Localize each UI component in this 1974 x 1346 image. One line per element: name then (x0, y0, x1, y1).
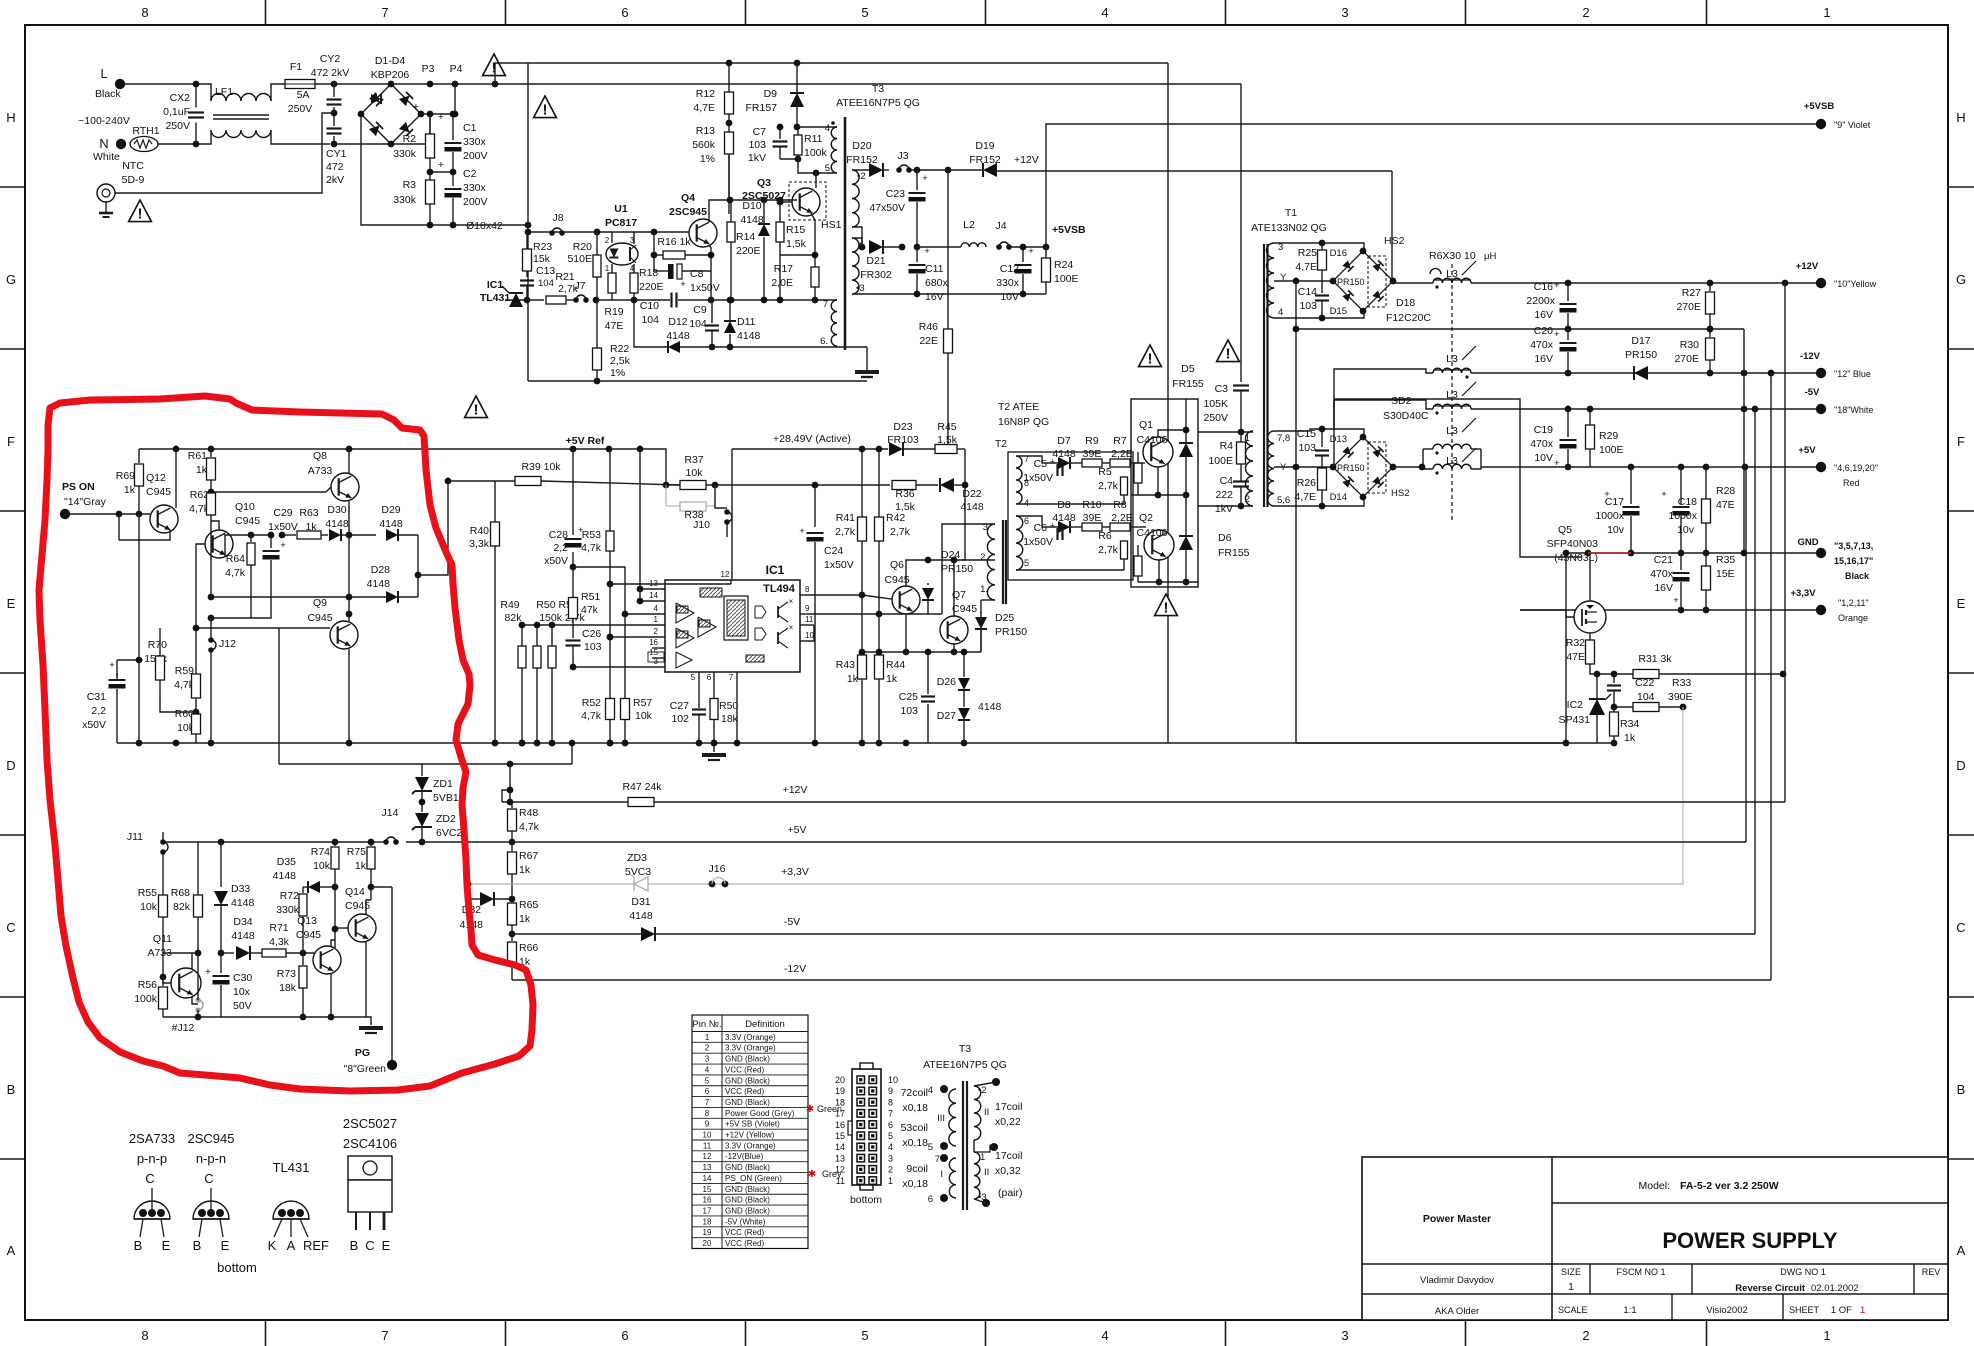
svg-text:D18: D18 (1396, 297, 1415, 309)
warning triangle near T1 (1217, 340, 1240, 362)
svg-text:Red: Red (1843, 478, 1860, 488)
svg-text:+3,3V: +3,3V (1790, 588, 1816, 599)
svg-text:R73: R73 (277, 968, 296, 980)
svg-text:C9: C9 (693, 304, 707, 316)
wire CY midpoint to earth (115, 113, 334, 193)
wire Q9 base row (196, 627, 330, 629)
svg-text:330k: 330k (393, 194, 417, 206)
svg-text:+: + (680, 279, 686, 290)
svg-text:D14: D14 (1330, 492, 1347, 503)
wire D19 +12V link line (997, 170, 1392, 172)
svg-text:B: B (7, 1082, 16, 1097)
svg-text:U1: U1 (614, 203, 628, 215)
svg-text:+28,49V (Active): +28,49V (Active) (773, 433, 851, 445)
svg-text:PS_ON (Green): PS_ON (Green) (725, 1174, 782, 1183)
svg-text:16: 16 (649, 638, 658, 647)
svg-text:+: + (109, 660, 115, 671)
svg-text:R9: R9 (1085, 435, 1099, 447)
svg-text:ZD1: ZD1 (433, 778, 453, 790)
svg-text:J16: J16 (709, 863, 726, 875)
svg-text:R35: R35 (1716, 554, 1735, 566)
svg-text:C1: C1 (463, 122, 477, 134)
svg-text:C30: C30 (233, 972, 252, 984)
svg-text:2,7k: 2,7k (890, 526, 911, 538)
svg-text:SHEET: SHEET (1789, 1305, 1820, 1315)
svg-text:R18: R18 (639, 267, 658, 279)
wire primary return bus (453, 224, 528, 226)
svg-text:4,7k: 4,7k (225, 567, 246, 579)
wire Q4 emitter column (709, 245, 711, 300)
transistor Q2 C4106 (1144, 530, 1174, 560)
svg-text:x50V: x50V (544, 555, 568, 567)
svg-text:7: 7 (381, 5, 388, 20)
warning triangle (483, 54, 506, 76)
wire Q8 emitter down to Q9 (348, 501, 350, 614)
T1 core (1263, 244, 1265, 507)
svg-text:Model:: Model: (1638, 1180, 1670, 1192)
wire Q5 source to R32 (1589, 633, 1591, 640)
svg-text:D8: D8 (1057, 499, 1071, 511)
svg-text:White: White (93, 151, 120, 163)
svg-text:D23: D23 (893, 421, 912, 433)
wire Q10 base (196, 544, 205, 674)
wire +3,3V rail grey (470, 883, 1683, 885)
wire pin10 (808, 625, 814, 641)
wire +5VRef to pins 13 14 (639, 449, 641, 601)
svg-text:4148: 4148 (629, 910, 653, 922)
svg-text:82k: 82k (505, 612, 523, 624)
-12V output terminal (1816, 368, 1826, 378)
svg-text:17: 17 (835, 1109, 845, 1119)
svg-text:C26: C26 (582, 628, 601, 640)
svg-text:Q4: Q4 (681, 192, 695, 204)
svg-text:3: 3 (1341, 5, 1348, 20)
svg-text:18: 18 (703, 1217, 712, 1226)
resistor R11 100k (794, 135, 802, 155)
diode D9 FR157 (794, 60, 801, 67)
svg-text:16V: 16V (1534, 353, 1553, 365)
svg-text:T1: T1 (1285, 207, 1297, 219)
svg-text:C22: C22 (1635, 677, 1654, 689)
svg-text:•2: •2 (978, 1085, 987, 1096)
warning triangle near D5 (1139, 345, 1162, 367)
svg-text:82k: 82k (173, 901, 191, 913)
svg-text:R32: R32 (1566, 637, 1585, 649)
svg-text:H: H (1956, 110, 1965, 125)
svg-text:C945: C945 (296, 929, 321, 941)
svg-text:+5V: +5V (1798, 445, 1816, 456)
T1 primary winding pins 1-2 (1246, 431, 1253, 506)
svg-text:L3: L3 (1446, 455, 1458, 467)
svg-text:2,0E: 2,0E (771, 277, 793, 289)
svg-text:+: + (922, 173, 928, 184)
svg-text:9: 9 (888, 1086, 893, 1096)
svg-text:SD2: SD2 (1391, 395, 1412, 407)
resistor R18 220E (630, 273, 638, 293)
svg-text:4,3k: 4,3k (269, 936, 290, 948)
svg-text:FR152: FR152 (969, 154, 1001, 166)
svg-text:3.3V (Orange): 3.3V (Orange) (725, 1033, 776, 1042)
svg-text:R23: R23 (533, 241, 552, 253)
wire half bridge mid to T1 pin1 (1198, 431, 1253, 433)
wire Q13 emitter (330, 974, 332, 1017)
svg-text:R41: R41 (836, 512, 855, 524)
T3 detail winding II link (973, 1140, 975, 1152)
svg-text:PR150: PR150 (995, 626, 1027, 638)
svg-text:VCC (Red): VCC (Red) (725, 1087, 764, 1096)
svg-text:Q14: Q14 (345, 886, 365, 898)
svg-text:R6: R6 (1098, 530, 1112, 542)
wire -5V line (1471, 408, 1821, 410)
svg-text:C: C (204, 1171, 213, 1186)
T3 detail winding I (949, 1158, 956, 1198)
svg-text:TL431: TL431 (273, 1160, 310, 1175)
svg-text:R7: R7 (1113, 435, 1127, 447)
svg-text:D1-D4: D1-D4 (375, 55, 406, 67)
svg-text:FR155: FR155 (1218, 547, 1250, 559)
grey jumper at Q11 (198, 1000, 203, 1010)
svg-text:R5: R5 (1098, 466, 1112, 478)
svg-text:C4106: C4106 (1137, 434, 1168, 446)
svg-text:R21: R21 (555, 271, 574, 283)
svg-text:1: 1 (654, 615, 659, 624)
svg-text:4148: 4148 (273, 870, 297, 882)
wire N (158, 143, 196, 145)
svg-text:Q1: Q1 (1139, 419, 1153, 431)
wire -12V feed from T1 (1334, 369, 1433, 429)
svg-text:250V: 250V (165, 120, 190, 132)
svg-text:L2: L2 (963, 219, 975, 231)
svg-text:4: 4 (705, 1065, 710, 1074)
svg-text:2,7k: 2,7k (1098, 544, 1119, 556)
svg-text:+: + (413, 101, 419, 113)
wire base drive row (528, 231, 689, 233)
title block dwg cell (1913, 1264, 1915, 1294)
svg-text:6.: 6. (820, 336, 828, 347)
wire +3.3V sense grey (1682, 707, 1684, 884)
svg-text:G: G (1956, 272, 1966, 287)
svg-text:TL431: TL431 (480, 292, 511, 304)
startup box left edge (527, 63, 529, 381)
svg-text:•3: •3 (856, 283, 865, 294)
node P4 (452, 81, 459, 88)
svg-text:H: H (6, 110, 15, 125)
wire C31 top (117, 659, 139, 661)
svg-text:4148: 4148 (666, 330, 690, 342)
svg-text:100E: 100E (1054, 273, 1079, 285)
svg-text:4,7k: 4,7k (581, 542, 602, 554)
svg-text:103: 103 (1299, 300, 1317, 312)
svg-text:15: 15 (835, 1131, 845, 1141)
svg-text:C2: C2 (463, 168, 477, 180)
svg-text:13: 13 (835, 1153, 845, 1163)
svg-text:ATEE16N7P5 QG: ATEE16N7P5 QG (836, 97, 920, 109)
svg-text:5: 5 (928, 1142, 933, 1153)
resistor R3 330k (429, 172, 431, 180)
svg-text:3: 3 (654, 657, 659, 666)
+3,3V output terminal (1816, 605, 1826, 615)
wire bridge to choke +5V (1393, 466, 1423, 468)
svg-text:(pair): (pair) (998, 1187, 1023, 1199)
svg-text:"12" Blue: "12" Blue (1834, 369, 1871, 379)
svg-text:T2 ATEE: T2 ATEE (998, 401, 1039, 413)
svg-text:Q3: Q3 (757, 177, 771, 189)
wire rail risers right (1745, 467, 1747, 842)
svg-text:7: 7 (705, 1098, 710, 1107)
svg-text:3.3V (Orange): 3.3V (Orange) (725, 1141, 776, 1150)
IC1 output transistor 1 (777, 606, 779, 618)
node N input terminal (116, 139, 126, 149)
svg-text:20: 20 (703, 1239, 712, 1248)
svg-text:!: ! (543, 102, 548, 119)
svg-text:FR155: FR155 (1172, 378, 1204, 390)
svg-text:17coil: 17coil (995, 1101, 1022, 1113)
svg-text:11: 11 (703, 1141, 712, 1150)
svg-text:2SC945: 2SC945 (188, 1131, 235, 1146)
svg-text:+: + (799, 526, 805, 537)
svg-text:Pin №.: Pin №. (692, 1019, 721, 1030)
svg-text:C12: C12 (1000, 263, 1019, 275)
wire Q5 gate to 3.3V line (1566, 610, 1574, 617)
T3 secondary winding pin 2 (852, 170, 859, 227)
svg-text:C10: C10 (640, 300, 659, 312)
svg-text:16V: 16V (925, 291, 944, 303)
svg-text:PR150: PR150 (1337, 277, 1365, 287)
svg-text:2: 2 (654, 627, 659, 636)
wire Q12 collector (175, 449, 177, 508)
resistor R19 47E (608, 273, 616, 293)
wire +12V link down to rectifier node (1391, 171, 1393, 283)
svg-text:Q11: Q11 (153, 933, 172, 945)
svg-text:5: 5 (1024, 558, 1029, 568)
svg-text:1: 1 (1860, 1305, 1865, 1316)
svg-text:103: 103 (748, 139, 766, 151)
svg-text:17: 17 (703, 1206, 712, 1215)
IC1 TL494 PWM controller (665, 580, 800, 672)
svg-text:5D-9: 5D-9 (122, 174, 145, 186)
wire R53 column to pin2 and R52 (609, 584, 611, 699)
svg-text:R3: R3 (403, 179, 417, 191)
wire main secondary ground bus (117, 742, 1566, 744)
svg-text:IC1: IC1 (766, 563, 785, 577)
svg-text:S30D40C: S30D40C (1383, 410, 1429, 422)
svg-text:R64: R64 (226, 553, 245, 565)
svg-text:R69: R69 (116, 470, 135, 482)
svg-text:4148: 4148 (740, 214, 764, 226)
svg-text:E: E (221, 1238, 230, 1253)
svg-text:R49: R49 (500, 599, 519, 611)
svg-text:R10: R10 (1082, 499, 1101, 511)
resistor Q1 base resistor (1134, 463, 1142, 483)
svg-text:PR150: PR150 (1625, 349, 1657, 361)
svg-text:+5V SB (Violet): +5V SB (Violet) (725, 1120, 780, 1129)
earth ground (97, 184, 115, 202)
capacitor C1 330x 200V (452, 114, 454, 140)
svg-text:270E: 270E (1674, 353, 1699, 365)
wire ZD1 top row (279, 763, 422, 765)
+5VSB output terminal (1816, 119, 1826, 129)
svg-text:P4: P4 (450, 63, 463, 75)
svg-text:4148: 4148 (367, 578, 391, 590)
svg-text:1%: 1% (610, 367, 625, 379)
svg-text:103: 103 (584, 641, 602, 653)
svg-text:8: 8 (805, 585, 810, 594)
svg-text:Q9: Q9 (313, 597, 327, 609)
svg-text:D27: D27 (937, 710, 956, 722)
svg-text:12: 12 (835, 1165, 845, 1175)
T2 core (1002, 520, 1004, 604)
svg-text:472 2kV: 472 2kV (311, 67, 350, 79)
T3 winding pins 7-6 (831, 300, 837, 346)
svg-text:4148: 4148 (978, 701, 1002, 713)
svg-text:Q10: Q10 (235, 501, 255, 513)
svg-text:C: C (365, 1238, 374, 1253)
svg-text:4148: 4148 (379, 518, 403, 530)
wire IC1 pin7 (736, 672, 738, 743)
svg-text:n-p-n: n-p-n (196, 1151, 226, 1166)
svg-text:10V: 10V (1000, 291, 1019, 303)
svg-text:16: 16 (835, 1120, 845, 1130)
wire GND line (1566, 552, 1821, 554)
svg-text:E: E (1957, 596, 1966, 611)
svg-text:R57: R57 (633, 697, 652, 709)
svg-text:D20: D20 (852, 140, 871, 152)
svg-text:+: + (438, 111, 444, 123)
wire Q3 emitter (811, 213, 815, 268)
dashed mag-amp control line (1451, 264, 1453, 520)
wire PG output (391, 887, 393, 1065)
diode D10 4148 (763, 200, 765, 223)
svg-text:Definition: Definition (745, 1019, 785, 1030)
svg-text:C14: C14 (1298, 286, 1317, 298)
svg-text:E: E (7, 596, 16, 611)
svg-text:ATEE16N7P5 QG: ATEE16N7P5 QG (923, 1059, 1007, 1071)
svg-text:14: 14 (703, 1174, 712, 1183)
svg-text:GND (Black): GND (Black) (725, 1076, 770, 1085)
svg-text:-5V: -5V (784, 916, 800, 928)
svg-text:D16: D16 (1330, 248, 1347, 259)
capacitor C11 680x 16V (916, 247, 918, 262)
wire drive row (862, 651, 981, 653)
svg-text:200V: 200V (463, 196, 488, 208)
resistor R24 100E (1045, 247, 1047, 258)
svg-text:1: 1 (1823, 1328, 1830, 1343)
svg-text:4: 4 (1024, 498, 1029, 508)
svg-text:HS2: HS2 (1391, 488, 1409, 499)
wire T1 pin3 line (1274, 243, 1364, 251)
svg-text:47x50V: 47x50V (869, 202, 905, 214)
svg-text:R11: R11 (804, 133, 823, 145)
svg-text:CY1: CY1 (326, 148, 347, 160)
svg-text:"18"White: "18"White (1834, 405, 1873, 415)
wire Q3 base (780, 201, 792, 203)
wire pin9/11 line (808, 613, 942, 615)
svg-text:D29: D29 (381, 504, 400, 516)
svg-text:NTC: NTC (122, 160, 144, 172)
svg-text:R42: R42 (886, 512, 905, 524)
svg-text:7: 7 (888, 1109, 893, 1119)
svg-text:02.01.2002: 02.01.2002 (1811, 1283, 1859, 1294)
svg-text:D30: D30 (327, 504, 346, 516)
svg-text:"9" Violet: "9" Violet (1834, 120, 1871, 130)
svg-text:10k: 10k (313, 860, 331, 872)
svg-text:Q2: Q2 (1139, 512, 1153, 524)
svg-text:GND: GND (1797, 537, 1818, 548)
svg-text:5: 5 (691, 673, 696, 682)
svg-text:1k: 1k (355, 860, 367, 872)
svg-text:16V: 16V (1534, 309, 1553, 321)
svg-text:Q13: Q13 (297, 915, 317, 927)
wire Q8 base row (211, 491, 326, 493)
svg-text:103: 103 (900, 705, 918, 717)
svg-text:R70: R70 (148, 639, 167, 651)
svg-text:19: 19 (835, 1086, 845, 1096)
wire T1 pin4 line (1274, 311, 1364, 318)
svg-text:ATE133N02 QG: ATE133N02 QG (1251, 222, 1327, 234)
half-bridge block box (1131, 399, 1198, 587)
svg-text:F12C20C: F12C20C (1386, 312, 1431, 324)
svg-text:47E: 47E (1716, 499, 1735, 511)
svg-text:330x: 330x (463, 182, 487, 194)
svg-text:11: 11 (836, 1176, 845, 1186)
wire +28V feed vertical (731, 449, 733, 579)
svg-text:4: 4 (1278, 307, 1283, 318)
svg-text:2,2E: 2,2E (1111, 448, 1133, 460)
svg-text:104: 104 (538, 278, 554, 289)
svg-text:!: ! (1226, 346, 1231, 363)
svg-text:R19: R19 (604, 306, 623, 318)
svg-text:1k: 1k (519, 913, 531, 925)
svg-text:+5V: +5V (788, 824, 807, 836)
svg-text:"3,5,7,13,: "3,5,7,13, (1834, 541, 1873, 551)
wire Y tap vertical down (1295, 281, 1297, 743)
svg-text:Visio2002: Visio2002 (1706, 1305, 1748, 1316)
svg-text:"14"Gray: "14"Gray (64, 496, 107, 508)
svg-text:4148: 4148 (325, 518, 349, 530)
svg-text:270E: 270E (1676, 301, 1701, 313)
ATX connector bottom view (852, 1069, 881, 1185)
svg-text:2: 2 (705, 1044, 710, 1053)
wire C6 row (1016, 516, 1058, 527)
svg-text:4148: 4148 (231, 930, 255, 942)
ground T3 pin6 (837, 346, 867, 348)
svg-text:C6: C6 (1034, 522, 1048, 534)
svg-text:R53: R53 (582, 529, 601, 541)
T3 detail winding II upper (974, 1086, 981, 1140)
svg-text:2SC4106: 2SC4106 (343, 1136, 397, 1151)
svg-text:8: 8 (141, 1328, 148, 1343)
ground IC1 (713, 743, 715, 752)
svg-text:R2: R2 (403, 133, 417, 145)
svg-text:3: 3 (705, 1055, 710, 1064)
svg-text:510E: 510E (567, 253, 592, 265)
wire Q7 emitter (953, 644, 955, 652)
svg-text:Q6: Q6 (890, 559, 904, 571)
title block scale row (1671, 1294, 1673, 1320)
diode D20 FR152 (869, 163, 883, 177)
wire bridge minus rail (361, 114, 453, 225)
warning triangle (465, 396, 488, 418)
svg-text:R37: R37 (684, 454, 703, 466)
resistor R22 2,5k 1% (596, 300, 598, 348)
IC1 error amplifier 2 (676, 628, 694, 648)
svg-text:C3: C3 (1215, 383, 1229, 395)
wire opto row to Q3 R14 R15 bottoms (711, 299, 837, 301)
svg-text:1000x: 1000x (1595, 510, 1624, 522)
wire mid node R2 C1 (430, 171, 453, 173)
svg-text:R20: R20 (573, 241, 592, 253)
wire Q13 collector (331, 940, 335, 946)
